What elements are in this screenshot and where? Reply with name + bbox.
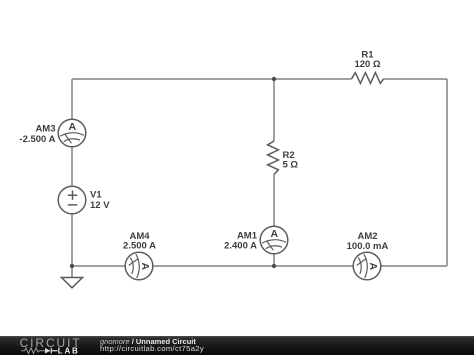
wire AM1 to bottom node <box>273 254 275 266</box>
svg-text:2.400 A: 2.400 A <box>224 241 257 252</box>
wire left vertical top (corner down to AM3) <box>71 79 73 119</box>
voltage source V1 <box>58 186 86 214</box>
ammeter AM2 (rotated) <box>353 252 381 280</box>
wire middle branch node to R2 <box>273 79 275 141</box>
resistor R2 <box>268 141 279 175</box>
wire top-left horizontal (node from V1+ to R1 left) <box>72 78 352 80</box>
wire bottom left (ground node to AM4) <box>72 265 125 267</box>
resistor R1 <box>352 73 384 84</box>
svg-text:AM3: AM3 <box>35 123 55 134</box>
svg-text:-2.500 A: -2.500 A <box>19 134 55 145</box>
svg-text:2.500 A: 2.500 A <box>123 240 156 251</box>
node R2 top junction <box>272 77 276 81</box>
svg-text:5 Ω: 5 Ω <box>283 159 299 170</box>
svg-text:A: A <box>367 263 379 271</box>
wire AM3 to V1 <box>71 147 73 187</box>
wire ground stub <box>71 266 73 278</box>
svg-text:A: A <box>271 228 279 240</box>
node ground junction <box>70 264 74 268</box>
ammeter AM1 <box>260 226 288 254</box>
wire R2 to AM1 <box>273 175 275 227</box>
node AM1 bottom junction <box>272 264 276 268</box>
footer bar <box>0 336 474 355</box>
ammeter AM3 <box>58 119 86 147</box>
svg-text:100.0 mA: 100.0 mA <box>347 241 389 252</box>
svg-text:12 V: 12 V <box>90 200 110 211</box>
wire right vertical rail <box>446 79 448 266</box>
svg-text:A: A <box>69 121 77 133</box>
svg-text:A: A <box>139 263 151 271</box>
ammeter AM4 (rotated) <box>125 252 153 280</box>
CircuitLab logo <box>14 336 104 355</box>
wire AM2 to bottom-right corner <box>381 265 447 267</box>
svg-text:120 Ω: 120 Ω <box>354 59 380 70</box>
wire top-right (R1 right to right rail) <box>384 78 448 80</box>
wire AM4 to AM2 through node <box>153 265 354 267</box>
wire V1 to ground node <box>71 214 73 267</box>
footer credit text <box>100 338 204 352</box>
ground <box>62 278 83 288</box>
svg-text:LAB: LAB <box>58 346 80 355</box>
